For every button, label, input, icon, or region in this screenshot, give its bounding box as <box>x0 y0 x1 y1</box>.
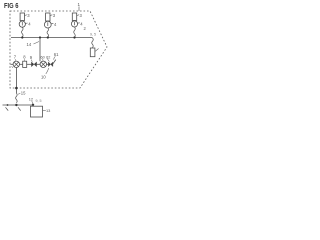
svg-text:3: 3 <box>53 13 56 18</box>
svg-text:8: 8 <box>23 55 26 60</box>
svg-text:FIG 6: FIG 6 <box>4 3 19 10</box>
svg-text:4: 4 <box>54 22 57 27</box>
svg-text:2: 2 <box>84 26 87 31</box>
svg-text:62: 62 <box>46 55 50 59</box>
svg-text:13: 13 <box>46 108 50 113</box>
svg-text:61: 61 <box>54 52 59 57</box>
svg-text:12: 12 <box>29 97 33 102</box>
svg-text:3: 3 <box>27 13 30 18</box>
svg-text:1: 1 <box>78 2 81 7</box>
svg-text:15: 15 <box>21 91 26 96</box>
svg-text:9, 5: 9, 5 <box>90 33 96 37</box>
svg-text:3: 3 <box>80 13 83 18</box>
svg-text:10: 10 <box>41 75 46 80</box>
svg-text:9: 9 <box>30 55 33 60</box>
svg-text:7: 7 <box>14 55 17 60</box>
svg-text:14: 14 <box>27 42 32 47</box>
svg-text:9, 5: 9, 5 <box>36 99 42 103</box>
svg-text:4: 4 <box>28 22 31 27</box>
